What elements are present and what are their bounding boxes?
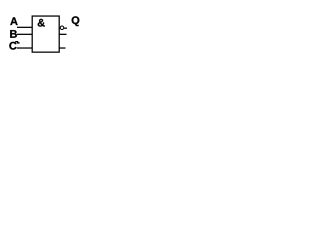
label Q (output) [72,16,80,26]
label C (input C) [9,42,16,50]
& symbol label [38,19,45,27]
stray mark (artifact near C) [15,41,18,42]
wire stub (unlabelled, B pass-through) [59,34,66,35]
wire C input [17,47,33,48]
label B (input B) [10,30,17,38]
inversion bubble on output [60,26,64,30]
label A (input A) [10,17,17,25]
wire B input [17,34,33,35]
background [0,0,93,67]
AND gate U1 body [32,16,59,52]
wire stub (unlabelled, C pass-through) [59,47,65,48]
wire A input [17,27,32,28]
wire output Q [59,28,67,29]
